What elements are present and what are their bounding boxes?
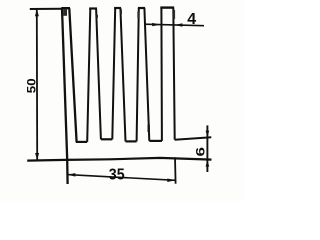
arrowhead: 50 dim top (up) [35, 10, 39, 17]
arrowhead: 35 dim left (points left) [67, 173, 75, 177]
arrowhead: 4 dim left (points right) [152, 23, 160, 26]
slot 2 bottom [101, 138, 112, 140]
fin 3 right edge [120, 8, 125, 141]
smudge: fin2 right nub [96, 15, 98, 18]
fin 5 top cap [160, 6, 174, 8]
smudge: fin5 right nub [174, 10, 176, 19]
fin 4 left edge [137, 8, 139, 141]
arrowhead: 4 dim right (points left) [175, 23, 183, 27]
profile bottom edge + extensions [27, 158, 211, 161]
svg-text:50: 50 [27, 78, 39, 93]
fin 5 right edge [173, 8, 174, 140]
slot 1 bottom [76, 141, 87, 143]
slot 4 bottom [149, 140, 162, 142]
fin 2 right edge [96, 9, 101, 140]
fin 1 top cap [61, 7, 70, 9]
smudge: fin4 left nub [137, 11, 139, 18]
wire: 35 right extension line [174, 157, 177, 183]
svg-text:35: 35 [109, 167, 125, 184]
smudge: fin3 right nub [120, 10, 122, 15]
arrowhead: 6 dim bottom (up) [206, 160, 210, 167]
smudge: fin1 inner top [63, 9, 67, 16]
slot 3 bottom [126, 140, 137, 142]
fin 2 top cap [89, 7, 97, 9]
wire: 6 dimension vertical line [206, 125, 208, 172]
fin 4 right edge [144, 8, 149, 141]
fin 1 right edge [69, 8, 76, 142]
fin 5 left edge [160, 8, 163, 141]
svg-text:4: 4 [187, 11, 196, 28]
fin 3 left edge [112, 8, 115, 139]
arrowhead: 6 dim top (down) [206, 131, 210, 138]
arrowhead: 35 dim right (points right) [167, 179, 175, 183]
arrowhead: 50 dim bottom (down) [35, 153, 39, 160]
wire: 50 dimension vertical line [36, 10, 38, 160]
wire: 35 dimension line [67, 175, 175, 181]
wire: extension line top for 50 dim [30, 8, 62, 10]
wire: 4 dimension line [144, 24, 204, 26]
smudge: fin4 right lower blob [148, 125, 150, 133]
fin 3 top cap [114, 7, 121, 9]
heatsink profile left edge + 35 extension below [62, 8, 68, 184]
svg-text:6: 6 [194, 147, 208, 157]
base tab top edge [175, 137, 212, 140]
fin 4 top cap [138, 7, 145, 9]
fin 2 left edge [87, 9, 90, 142]
